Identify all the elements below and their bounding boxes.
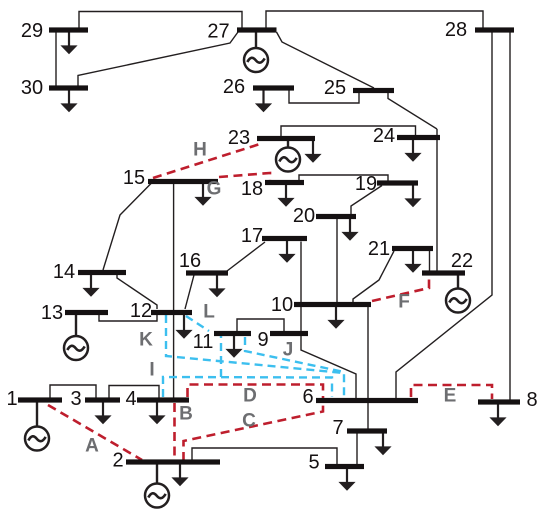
line 14-15 [103,184,151,271]
load at bus 11 [225,334,242,358]
svg-text:22: 22 [451,250,473,272]
svg-text:A: A [85,436,99,457]
line 23-24 [281,126,416,137]
load at bus 7 [374,431,391,455]
candidate line H (15-23) [153,140,260,178]
svg-text:15: 15 [123,167,145,189]
load at bus 24 [404,138,421,162]
bus 1 bar [18,397,62,402]
svg-text:16: 16 [179,250,201,272]
svg-text:12: 12 [130,300,152,322]
svg-text:J: J [283,340,294,361]
svg-text:20: 20 [293,205,315,227]
load at bus 8 [489,402,506,426]
bus 29 bar [49,27,88,32]
svg-text:B: B [179,404,193,425]
line 9-10 [300,307,302,331]
generator at bus 13 [64,313,88,361]
line 18-19 [299,175,388,181]
svg-text:17: 17 [241,225,263,247]
generator at bus 22 [446,273,470,313]
line 8-28 [509,32,511,400]
bus 24 bar [397,135,440,140]
line 22-24 [436,129,438,271]
line 25-26 [289,90,359,103]
bus 3 bar [85,397,120,402]
svg-text:F: F [398,292,410,313]
svg-text:8: 8 [526,389,537,411]
candidate line I spur to bus 11 [220,336,222,377]
load at bus 2 [171,462,188,486]
svg-text:4: 4 [125,388,136,410]
generator at bus 23 [276,139,300,172]
svg-text:G: G [207,179,222,200]
load at bus 18 [277,183,294,207]
bus 28 bar [475,27,514,32]
line 10-20 [336,219,338,302]
line 16-17 [227,242,265,271]
bus 7 bar [347,428,387,433]
load at bus 4 [148,400,165,424]
svg-text:23: 23 [228,127,250,149]
svg-text:I: I [149,360,154,381]
load at bus 29 [60,30,77,54]
svg-text:1: 1 [6,388,17,410]
bus 14 bar [78,270,126,275]
line 2-5 [192,448,337,464]
bus 15 bar [148,179,218,184]
load at bus 21 [404,249,421,273]
bus 2 bar [126,459,220,464]
svg-text:13: 13 [41,302,63,324]
line 27-30 [78,32,238,86]
bus 30 bar [49,85,88,90]
load at bus 23 [304,139,321,163]
candidate line L (12-11) [186,316,209,331]
line 25-27 [277,32,375,88]
candidate line K (12-6) [166,315,344,397]
candidate line I (4-6) [163,377,332,397]
svg-text:H: H [193,140,207,161]
load at bus 30 [60,88,77,112]
line 6-9 [301,336,356,398]
svg-text:C: C [242,411,256,432]
bus 12 bar [151,310,192,315]
svg-text:19: 19 [355,173,377,195]
bus 10 bar [294,302,371,307]
line 3-4 [109,386,159,399]
svg-text:6: 6 [302,386,313,408]
line 10-17 [300,242,302,303]
line 6-10 and line 6-7 [367,306,369,429]
line 24-25 [388,92,437,129]
svg-text:E: E [444,386,457,407]
bus 27 bar [237,27,277,32]
candidate line C (2-6) [184,403,324,461]
bus 18 bar [265,180,304,185]
candidate line F (10-22) [372,275,429,301]
candidate line B (2-4) [173,403,176,459]
load at bus 10 [327,305,344,329]
svg-text:3: 3 [70,388,81,410]
load at bus 26 [255,88,272,112]
generator at bus 2 [145,462,169,508]
svg-text:L: L [203,302,215,323]
generator at bus 27 [244,30,268,72]
candidate line J (11-6) [245,337,344,372]
line 29-30 [55,32,57,86]
svg-text:10: 10 [271,294,293,316]
svg-text:30: 30 [21,77,43,99]
bus 16 bar [186,270,228,275]
bus 5 bar [325,464,364,469]
svg-text:7: 7 [332,417,343,439]
load at bus 5 [338,467,355,491]
line 27-28 [266,11,483,28]
line 21-22 [429,250,431,271]
load at bus 17 [278,239,295,263]
svg-text:21: 21 [368,238,390,260]
line 19-20 [351,186,382,215]
bus 11 bar [214,331,251,336]
line 27-29 [79,12,242,29]
svg-text:26: 26 [223,76,245,98]
bus 23 bar [257,136,315,141]
line 5-7 [356,433,358,464]
load at bus 16 [208,273,225,297]
candidate line D (4-6) [188,385,324,399]
bus 19 bar [377,180,418,185]
svg-text:29: 29 [21,20,43,42]
svg-text:2: 2 [112,450,123,472]
generator at bus 1 [25,400,49,451]
svg-text:24: 24 [373,125,395,147]
load at bus 19 [404,183,421,207]
bus 25 bar [353,88,394,93]
svg-text:9: 9 [257,329,268,351]
candidate line E (6-8) [411,385,492,399]
bus 6 bar [316,398,418,403]
bus 20 bar [316,214,356,219]
load at bus 14 [82,273,99,297]
svg-text:25: 25 [324,77,346,99]
line 15-12-4 (through bus 12) [173,184,175,399]
line 12-14 [117,275,157,309]
bus 13 bar [65,310,108,315]
bus 4 bar [137,397,189,402]
candidate line G (15-18) [219,173,270,181]
line 12-13 [99,314,157,321]
line 1-3 [50,385,96,398]
load at bus 3 [94,400,111,424]
line 9-11 [237,319,284,332]
line 10-21 [353,251,394,303]
svg-text:28: 28 [445,19,467,41]
svg-text:18: 18 [241,178,263,200]
line 12-16 [185,275,194,309]
load at bus 12 [175,313,192,339]
bus 8 bar [478,399,520,404]
load at bus 20 [341,217,358,241]
bus 26 bar [253,85,294,90]
bus 9 bar [270,331,308,336]
svg-text:27: 27 [207,21,229,43]
svg-text:D: D [243,386,257,407]
svg-text:14: 14 [53,261,75,283]
bus 21 bar [392,246,433,251]
bus 17 bar [262,236,307,241]
candidate line A (1-2) [48,405,142,460]
svg-text:K: K [139,330,153,351]
svg-text:5: 5 [308,452,319,474]
bus 22 bar [422,270,465,275]
load at bus 15 [194,182,211,206]
line 6-28 [396,32,492,398]
svg-text:11: 11 [193,331,214,353]
